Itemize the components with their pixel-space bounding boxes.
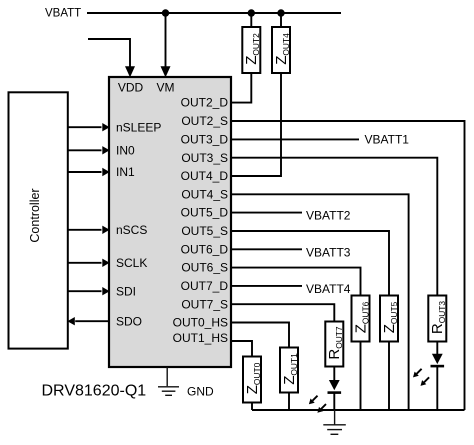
- svg-text:OUT6_S: OUT6_S: [181, 261, 228, 275]
- svg-text:OUT7_S: OUT7_S: [181, 297, 228, 311]
- svg-text:nSCS: nSCS: [116, 223, 147, 237]
- svg-text:OUT4_S: OUT4_S: [181, 187, 228, 201]
- svg-text:OUT5_S: OUT5_S: [181, 224, 228, 238]
- svg-text:OUT5_D: OUT5_D: [181, 206, 229, 220]
- svg-text:OUT0_HS: OUT0_HS: [173, 316, 228, 330]
- svg-text:VDD: VDD: [118, 81, 144, 95]
- svg-text:VBATT3: VBATT3: [306, 245, 351, 259]
- svg-text:SDI: SDI: [116, 284, 136, 298]
- svg-text:IN1: IN1: [116, 165, 135, 179]
- svg-text:nSLEEP: nSLEEP: [116, 120, 161, 134]
- svg-text:OUT3_D: OUT3_D: [181, 133, 229, 147]
- svg-text:SCLK: SCLK: [116, 256, 147, 270]
- svg-text:OUT1_HS: OUT1_HS: [173, 331, 228, 345]
- svg-text:OUT4_D: OUT4_D: [181, 169, 229, 183]
- svg-text:Controller: Controller: [28, 188, 42, 242]
- svg-text:OUT3_S: OUT3_S: [181, 151, 228, 165]
- svg-text:OUT2_S: OUT2_S: [181, 114, 228, 128]
- svg-text:VM: VM: [157, 81, 175, 95]
- svg-text:OUT2_D: OUT2_D: [181, 96, 229, 110]
- svg-text:GND: GND: [187, 384, 214, 398]
- svg-text:VBATT2: VBATT2: [306, 209, 351, 223]
- svg-text:OUT6_D: OUT6_D: [181, 242, 229, 256]
- svg-text:OUT7_D: OUT7_D: [181, 279, 229, 293]
- svg-text:VBATT4: VBATT4: [306, 282, 351, 296]
- svg-text:IN0: IN0: [116, 143, 135, 157]
- svg-text:SDO: SDO: [116, 314, 142, 328]
- svg-text:VBATT: VBATT: [45, 8, 81, 20]
- svg-text:VBATT1: VBATT1: [365, 133, 410, 147]
- svg-text:DRV81620-Q1: DRV81620-Q1: [42, 382, 147, 399]
